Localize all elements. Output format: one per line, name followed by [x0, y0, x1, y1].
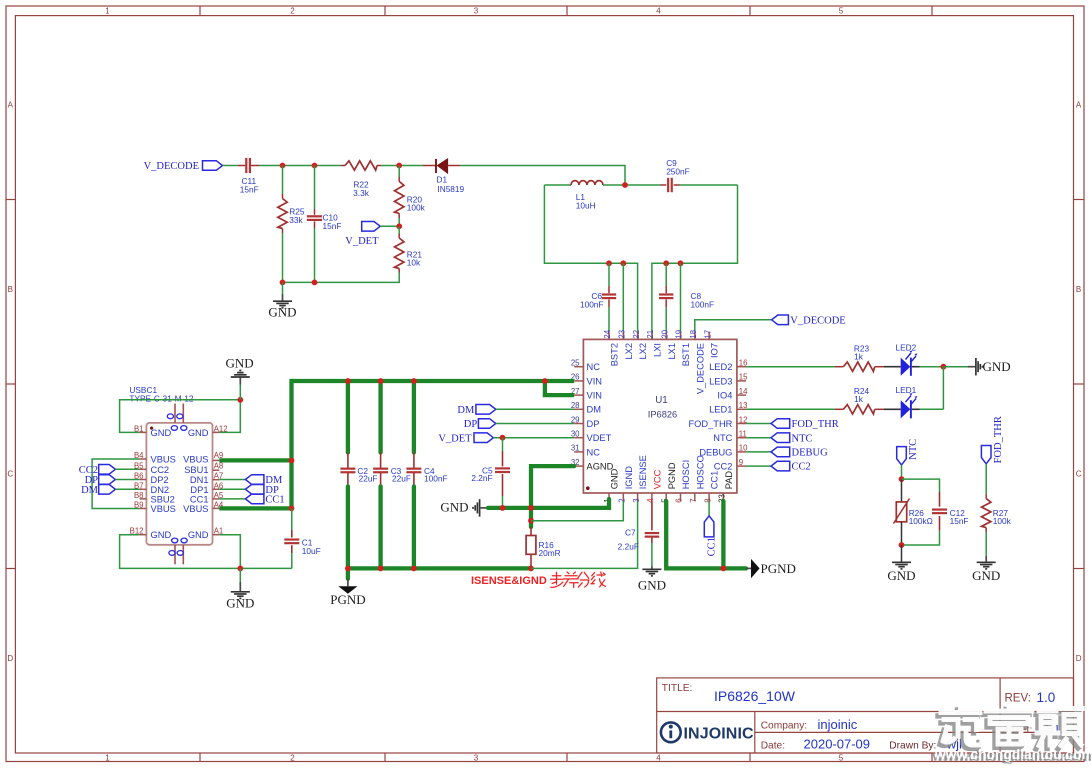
svg-text:ISENSE&IGND: ISENSE&IGND	[471, 575, 547, 587]
node junction C4 top	[411, 378, 417, 384]
svg-text:GND: GND	[151, 530, 172, 540]
wire IGND to pin2	[531, 501, 623, 521]
svg-text:IP6826_10W: IP6826_10W	[714, 688, 796, 704]
svg-text:15nF: 15nF	[240, 185, 259, 195]
node junction C3 bottom	[378, 566, 384, 572]
net flag DP (USB left)	[85, 475, 140, 486]
IC top pin numbers 24-17	[603, 329, 712, 338]
net flag DP (USB right)	[219, 485, 279, 497]
svg-text:2: 2	[290, 7, 295, 16]
INJOINIC logo	[661, 722, 754, 742]
svg-text:TITLE:: TITLE:	[662, 683, 693, 694]
wire ISENSE to pin3	[531, 501, 638, 568]
svg-text:CC1: CC1	[265, 495, 284, 506]
node junction LED2/LED1	[941, 364, 947, 370]
IC right pin stubs	[737, 367, 746, 466]
svg-text:DP2: DP2	[151, 475, 169, 485]
svg-text:PGND: PGND	[667, 462, 677, 489]
LED1	[884, 385, 943, 418]
wire C11 to R22	[259, 165, 341, 167]
svg-text:IN5819: IN5819	[437, 184, 464, 194]
capacitor C9 250nF	[661, 158, 690, 192]
resistor R25 33k	[278, 166, 305, 283]
svg-text:3: 3	[474, 754, 479, 763]
svg-text:CC2: CC2	[792, 462, 811, 473]
svg-text:100nF: 100nF	[424, 473, 448, 483]
IC bottom pin numbers 1-8 and 33	[603, 494, 726, 503]
resistor R21 10k	[395, 226, 423, 272]
svg-text:FOD_THR: FOD_THR	[792, 419, 839, 430]
svg-text:GND: GND	[226, 595, 254, 610]
wire pin16 to R23	[746, 366, 835, 368]
wire A12 GND	[219, 400, 240, 433]
svg-text:250nF: 250nF	[666, 167, 690, 177]
wire thick VBUS top bus	[292, 379, 575, 383]
capacitor C7 2.2uF (VCC)	[618, 501, 659, 567]
node junction AGND/GND rail	[528, 505, 534, 511]
wire V_DECODE flag to C11	[223, 165, 239, 167]
svg-text:15: 15	[739, 373, 748, 382]
wire thick PAD pin33	[721, 501, 725, 568]
svg-text:4: 4	[646, 498, 655, 503]
node junction C3 top	[378, 378, 384, 384]
svg-text:SBU1: SBU1	[184, 465, 208, 475]
svg-text:REV:: REV:	[1005, 693, 1031, 705]
svg-text:33k: 33k	[289, 215, 303, 225]
node junction GND rail left	[280, 280, 286, 286]
svg-text:GND: GND	[983, 359, 1011, 374]
svg-text:1k: 1k	[854, 394, 864, 404]
wire thick A4 VBUS	[219, 506, 291, 510]
node junction LX1 tap	[663, 260, 669, 266]
ground GND (below R27)	[972, 556, 1000, 583]
svg-text:2: 2	[618, 498, 627, 502]
svg-text:Company:: Company:	[761, 721, 807, 732]
resistor R27 100k	[982, 464, 1012, 556]
wire R22 to D1	[381, 165, 423, 167]
svg-text:CC2: CC2	[151, 465, 170, 475]
IC right pin names	[688, 362, 732, 471]
node junction V_DET	[396, 223, 402, 229]
svg-text:A8: A8	[214, 461, 224, 470]
svg-text:BST2: BST2	[610, 343, 620, 366]
svg-text:17: 17	[703, 330, 712, 339]
svg-text:GND: GND	[887, 568, 915, 583]
svg-text:SBU2: SBU2	[151, 494, 175, 504]
wire thick VIN pin27 branch	[545, 381, 574, 395]
IC top pin stubs	[609, 332, 709, 340]
node junction NTC top	[899, 476, 905, 482]
svg-text:B: B	[1076, 285, 1081, 294]
svg-text:4: 4	[656, 7, 661, 16]
node junction GND rail C10	[312, 280, 318, 286]
wire C9 right to loop	[680, 184, 738, 186]
node junction C4 bottom	[411, 566, 417, 572]
svg-text:2: 2	[290, 754, 295, 763]
wire thick PGND pin5	[666, 501, 746, 568]
power flag PGND (right arrow)	[746, 559, 796, 578]
node junction C5/GND rail	[500, 505, 506, 511]
svg-text:D: D	[1076, 654, 1082, 663]
IC top pin names	[610, 343, 720, 394]
svg-text:2020-07-09: 2020-07-09	[804, 736, 871, 751]
resistor R24 1k	[835, 386, 884, 414]
svg-text:D: D	[7, 654, 13, 663]
svg-text:1: 1	[105, 7, 110, 16]
node junction IGND branch	[528, 518, 534, 524]
svg-text:2.2nF: 2.2nF	[471, 473, 492, 483]
wire A1 GND	[219, 535, 240, 569]
svg-text:CC1: CC1	[190, 494, 209, 504]
wire BST1 pin19	[680, 263, 682, 331]
net flag DM (USB right)	[219, 475, 283, 487]
svg-text:15nF: 15nF	[950, 516, 969, 526]
svg-text:GND: GND	[972, 568, 1000, 583]
svg-text:V_DECODE: V_DECODE	[695, 343, 705, 394]
wire thick A9 VBUS	[219, 458, 291, 462]
wire R21 bottom to GND rail	[283, 273, 400, 283]
svg-text:VDET: VDET	[587, 433, 612, 443]
svg-text:GND: GND	[440, 500, 468, 515]
USB right pin stubs	[213, 432, 220, 534]
svg-text:PGND: PGND	[330, 592, 365, 607]
USB left pin names	[151, 428, 176, 540]
svg-text:INJOINIC: INJOINIC	[684, 725, 754, 742]
svg-text:3: 3	[632, 498, 641, 502]
svg-text:3: 3	[474, 7, 479, 16]
IC bottom pin stubs	[609, 493, 723, 501]
net flag DEBUG (IC right)	[746, 447, 828, 458]
ground GND (below C7)	[638, 567, 666, 593]
net flag CC2 (USB left)	[79, 465, 140, 476]
capacitor C3 22uF	[373, 381, 411, 568]
connector USBC1 TYPE-C-31-M-12 body	[129, 385, 212, 545]
svg-text:DM: DM	[457, 405, 475, 416]
node junction C2 top	[345, 378, 351, 384]
svg-text:LX1: LX1	[667, 343, 677, 360]
svg-text:100nF: 100nF	[691, 300, 715, 310]
node junction C2/PGND	[345, 566, 351, 572]
svg-text:100k: 100k	[407, 202, 426, 212]
svg-text:GND: GND	[226, 356, 254, 371]
svg-text:GND: GND	[610, 468, 620, 489]
ground GND (below R25)	[268, 282, 296, 319]
svg-text:LED1: LED1	[709, 405, 732, 415]
thermistor R26 100kOhm	[894, 479, 933, 545]
svg-text:GND: GND	[188, 428, 209, 438]
svg-text:DN2: DN2	[151, 485, 170, 495]
svg-text:NTC: NTC	[713, 433, 732, 443]
svg-text:PGND: PGND	[761, 561, 796, 576]
svg-text:22uF: 22uF	[359, 473, 378, 483]
net flag V_DET (left)	[345, 222, 380, 248]
resistor R22 3.3k	[341, 161, 381, 198]
node junction PAD/PGND	[721, 566, 727, 572]
net flag DP (to pin29)	[464, 419, 496, 430]
svg-text:V_DECODE: V_DECODE	[790, 316, 845, 327]
capacitor C8 100nF	[659, 263, 714, 331]
svg-text:14: 14	[739, 387, 748, 396]
svg-text:DP1: DP1	[190, 485, 208, 495]
net flag V_DECODE (right)	[772, 315, 846, 327]
wire loop right side	[652, 185, 738, 332]
wire B1 GND loop	[120, 400, 241, 433]
svg-text:B8: B8	[134, 491, 144, 500]
svg-text:DM: DM	[587, 405, 601, 415]
svg-text:Date:: Date:	[761, 740, 785, 751]
svg-text:A: A	[8, 101, 14, 110]
wire NTC flag down	[901, 465, 903, 479]
svg-text:NTC: NTC	[792, 433, 813, 444]
svg-text:TYPE-C-31-M-12: TYPE-C-31-M-12	[129, 394, 193, 404]
wire LX2 pin23	[622, 263, 624, 331]
svg-text:VBUS: VBUS	[151, 504, 176, 514]
svg-text:DP: DP	[587, 419, 600, 429]
node junction top GND	[237, 397, 243, 403]
svg-text:1: 1	[105, 754, 110, 763]
IC left pin numbers 25-32	[571, 359, 580, 467]
resistor R16 20mR (shunt)	[526, 527, 561, 566]
wire loop left side	[544, 185, 637, 332]
svg-text:100nF: 100nF	[580, 300, 604, 310]
wire thick AGND from pin32	[531, 466, 574, 527]
svg-text:1.0: 1.0	[1037, 690, 1056, 705]
capacitor C6 100nF	[580, 263, 616, 331]
svg-text:LED3: LED3	[709, 376, 732, 386]
wire DP to pin29	[496, 423, 574, 425]
svg-text:VBUS: VBUS	[183, 504, 208, 514]
watermark chongdiantou	[932, 706, 1092, 764]
node junction BST1 tap	[678, 260, 684, 266]
capacitor C5 2.2nF	[471, 438, 510, 508]
wire thick PGND bottom bus	[348, 566, 531, 570]
USB shield pins bottom	[169, 538, 187, 564]
svg-text:100kΩ: 100kΩ	[909, 516, 933, 526]
node junction R25 top	[280, 163, 286, 169]
node junction A9/VBUS	[289, 458, 295, 464]
svg-text:V_DET: V_DET	[345, 236, 379, 247]
wire pin13 to R24	[746, 408, 835, 410]
LED2	[884, 343, 943, 376]
capacitor C11 15nF	[238, 158, 259, 195]
svg-text:25: 25	[571, 359, 580, 368]
node junction LX2 tap	[620, 260, 626, 266]
svg-text:CC1: CC1	[706, 537, 717, 556]
svg-text:ISENSE: ISENSE	[638, 455, 648, 489]
inductor L1 10uH	[571, 181, 603, 211]
svg-text:Drawn By:: Drawn By:	[889, 740, 936, 751]
svg-text:24: 24	[603, 329, 612, 338]
svg-text:2.2uF: 2.2uF	[618, 542, 639, 552]
USB right pin names	[183, 428, 209, 540]
svg-text:FOD_THR: FOD_THR	[688, 419, 732, 429]
svg-text:C7: C7	[625, 527, 636, 537]
net flag CC2 (IC right)	[746, 461, 811, 472]
capacitor C4 100nF	[406, 381, 447, 568]
svg-text:9: 9	[739, 458, 743, 467]
svg-text:VBUS: VBUS	[183, 455, 208, 465]
node junction A4/VBUS	[289, 506, 295, 512]
svg-text:18: 18	[689, 330, 698, 339]
USB shield pins top	[167, 404, 187, 431]
svg-text:DEBUG: DEBUG	[792, 448, 829, 459]
svg-text:V_DET: V_DET	[438, 433, 472, 444]
svg-text:LX2: LX2	[638, 343, 648, 360]
svg-text:1k: 1k	[854, 351, 864, 361]
svg-text:8: 8	[703, 498, 712, 502]
svg-text:U1: U1	[655, 395, 668, 406]
wire DM to pin28	[496, 408, 574, 410]
node junction pin27 branch	[542, 378, 548, 384]
svg-text:GND: GND	[188, 530, 209, 540]
node junction C10 top	[312, 163, 318, 169]
capacitor C2 22uF	[340, 381, 377, 579]
wire thick VBUS vertical (USB side)	[289, 379, 293, 509]
svg-text:10uF: 10uF	[302, 546, 321, 556]
net flag CC1 (USB right)	[219, 494, 284, 506]
svg-text:10k: 10k	[407, 258, 421, 268]
svg-text:NC: NC	[587, 362, 601, 372]
svg-text:5: 5	[839, 7, 844, 16]
svg-text:C: C	[7, 470, 13, 479]
svg-text:10uH: 10uH	[576, 201, 596, 211]
net flag DM (to pin28)	[457, 405, 495, 416]
svg-text:31: 31	[571, 444, 580, 453]
svg-text:20: 20	[660, 329, 669, 338]
svg-text:C: C	[1076, 470, 1082, 479]
svg-text:5: 5	[839, 754, 844, 763]
ground GND (below USB)	[226, 568, 254, 610]
svg-text:LED1: LED1	[896, 385, 917, 395]
svg-text:100k: 100k	[993, 516, 1012, 526]
svg-text:LXI: LXI	[653, 343, 663, 357]
svg-text:GND: GND	[638, 577, 666, 592]
svg-text:CC2: CC2	[714, 462, 733, 472]
svg-text:4: 4	[656, 754, 661, 763]
net flag V_DECODE (top left)	[144, 161, 223, 172]
svg-text:CC1: CC1	[710, 471, 720, 490]
wire V_DECODE pin18	[695, 320, 772, 332]
svg-text:GND: GND	[151, 428, 172, 438]
svg-text:FOD_THR: FOD_THR	[993, 416, 1004, 463]
title block texts	[662, 683, 1061, 751]
IC left pin stubs	[574, 367, 583, 466]
svg-text:VBUS: VBUS	[151, 455, 176, 465]
svg-text:IO7: IO7	[710, 343, 720, 358]
net flag FOD_THR (vertical)	[981, 416, 1004, 464]
svg-text:VIN: VIN	[587, 391, 603, 401]
resistor R20 100k	[395, 166, 426, 227]
capacitor C10 15nF	[307, 166, 342, 283]
node junction R16 bottom	[528, 566, 534, 572]
net flag CC1 (pin8)	[704, 501, 717, 556]
diode D1 IN5819	[423, 159, 465, 194]
svg-text:A: A	[1076, 101, 1082, 110]
svg-text:IP6826: IP6826	[648, 409, 677, 419]
wire thick GND rail to pin1	[488, 499, 609, 508]
power flag PGND (down arrow)	[330, 579, 365, 607]
svg-text:VIN: VIN	[587, 376, 603, 386]
svg-text:B: B	[8, 285, 13, 294]
node junction L1/C9/D1	[622, 182, 628, 188]
op-amp U1 IP6826 body	[583, 339, 737, 493]
USB left pin stubs	[140, 432, 147, 534]
net flag V_DET (to pin30)	[438, 433, 493, 444]
net flag FOD_THR (IC right)	[746, 419, 839, 430]
node junction V_DET/C5	[500, 435, 506, 441]
svg-text:20mR: 20mR	[539, 548, 561, 558]
svg-text:6: 6	[675, 498, 684, 502]
svg-text:DM: DM	[81, 485, 99, 496]
svg-text:21: 21	[646, 330, 655, 339]
svg-text:LED2: LED2	[896, 343, 917, 353]
svg-text:LED2: LED2	[709, 362, 732, 372]
svg-text:www.chongdiantou.com: www.chongdiantou.com	[934, 747, 1092, 762]
ground GND (above USB, inverted)	[226, 356, 254, 400]
node junction BST2 tap	[606, 260, 612, 266]
capacitor C1 10uF	[284, 508, 320, 568]
svg-text:NC: NC	[587, 447, 601, 457]
IC left pin names	[587, 362, 614, 471]
svg-text:GND: GND	[268, 305, 296, 320]
node junction R26 bottom	[899, 542, 905, 548]
IC bottom pin names	[610, 455, 734, 489]
svg-text:3.3k: 3.3k	[353, 188, 370, 198]
svg-text:15nF: 15nF	[323, 221, 342, 231]
net flag DM (USB left)	[81, 485, 140, 496]
wire V_DET flag to divider	[380, 225, 399, 227]
resistor R23 1k	[835, 343, 884, 371]
capacitor C12 15nF	[902, 479, 969, 545]
wire L1 left segment	[544, 184, 571, 186]
net flag NTC (vertical)	[897, 439, 919, 465]
svg-text:19: 19	[675, 330, 684, 339]
svg-text:IO4: IO4	[717, 391, 732, 401]
ground GND (LED return)	[943, 358, 1010, 376]
wire B12 GND	[120, 535, 292, 569]
USB left pin numbers	[130, 424, 145, 535]
svg-text:7: 7	[689, 498, 698, 502]
svg-text:IGND: IGND	[624, 466, 634, 490]
svg-text:LX2: LX2	[624, 343, 634, 360]
svg-text:22: 22	[632, 330, 641, 339]
svg-text:DN1: DN1	[190, 475, 209, 485]
svg-text:23: 23	[618, 330, 627, 339]
svg-text:PAD: PAD	[724, 471, 734, 490]
svg-text:injoinic: injoinic	[818, 717, 858, 732]
svg-text:11: 11	[739, 430, 747, 439]
label ISENSE&IGND route note	[471, 572, 605, 587]
IC right pin numbers 16-9	[739, 359, 748, 467]
svg-text:VCC: VCC	[653, 469, 663, 489]
svg-text:BST1: BST1	[681, 343, 691, 366]
node junction bottom GND	[237, 566, 243, 572]
svg-text:V_DECODE: V_DECODE	[144, 161, 199, 172]
wire D1 to L1/C9 node	[460, 166, 625, 186]
node junction R20 top	[396, 163, 402, 169]
ground GND (left of AGND rail)	[440, 499, 488, 517]
svg-text:DP: DP	[464, 419, 478, 430]
wire B4/B9 VBUS loop	[92, 459, 140, 509]
svg-text:22uF: 22uF	[392, 473, 411, 483]
ground GND (below R26)	[887, 545, 915, 583]
title block	[657, 678, 1074, 753]
wire L1 to C9	[603, 184, 661, 186]
svg-text:HOSCO: HOSCO	[695, 455, 705, 489]
wire V_DET to pin30	[493, 437, 574, 439]
svg-text:HOSCI: HOSCI	[681, 460, 691, 489]
svg-text:NTC: NTC	[908, 439, 919, 460]
